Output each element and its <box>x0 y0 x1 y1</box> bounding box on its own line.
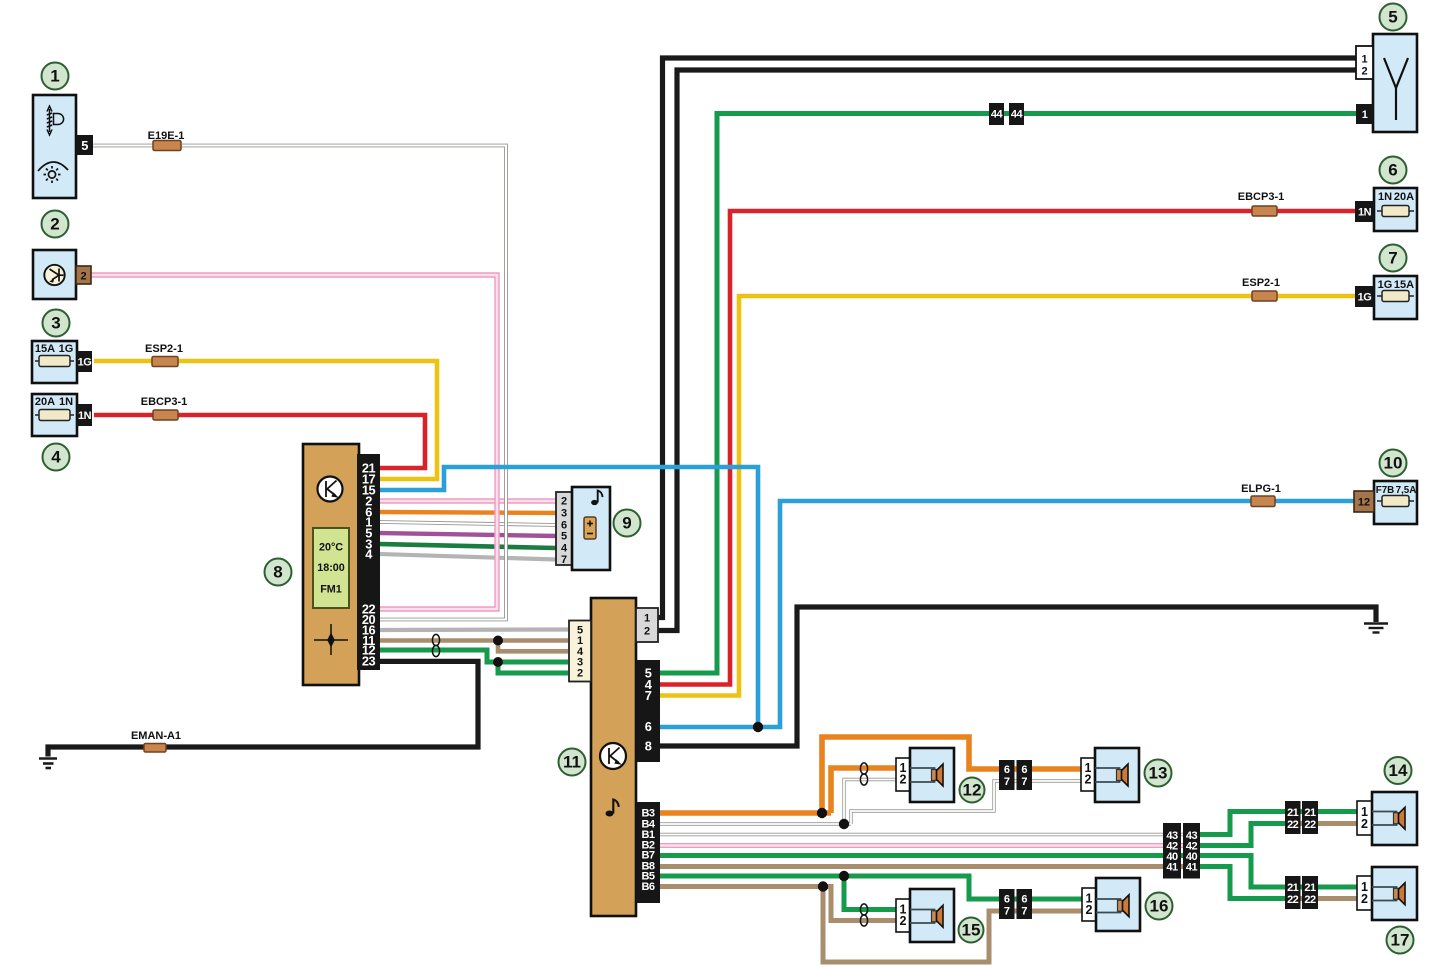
wire: radio pin4 to aux pin7 (gray) <box>379 554 556 560</box>
junction dot tan rear <box>818 881 828 891</box>
component 13: front right door speaker <box>1081 748 1139 802</box>
svg-text:F7B: F7B <box>1376 485 1395 496</box>
wire: radio pin16 to amp pin5 (gray) <box>379 627 568 632</box>
amp connector B pins B3..B6 <box>636 802 660 903</box>
svg-text:2: 2 <box>1361 892 1368 906</box>
svg-text:22: 22 <box>1304 819 1316 831</box>
radio display <box>313 528 349 608</box>
svg-text:41: 41 <box>1166 862 1178 874</box>
label ELPG-1 <box>1241 483 1281 507</box>
wire: radio pin1 to aux pin6 (white) <box>379 522 556 525</box>
svg-text:1: 1 <box>644 613 650 625</box>
svg-text:1N: 1N <box>78 410 92 422</box>
svg-text:B6: B6 <box>641 881 654 893</box>
svg-text:10: 10 <box>1384 454 1403 473</box>
svg-text:5: 5 <box>1388 8 1397 27</box>
svg-text:8: 8 <box>645 738 652 753</box>
wire: orange branch to speaker12 pin1 <box>831 768 896 813</box>
wire: dimmer switch E19E-1 to radio pin20 (white) <box>93 146 506 620</box>
svg-text:22: 22 <box>1287 819 1299 831</box>
circled number 17 <box>1387 927 1414 954</box>
wire: radio pin11 to amp pins1,4 (tan) <box>379 638 568 643</box>
wire: radio pin5 to aux pin5 (violet) <box>379 533 556 536</box>
wire: conn43 to speaker14 pin1 (green) <box>1198 812 1358 835</box>
twisted pair symbol speaker15 <box>860 904 867 926</box>
svg-text:6: 6 <box>1004 764 1010 776</box>
svg-text:2: 2 <box>80 271 86 283</box>
component 9: aux audio module <box>556 487 610 570</box>
svg-text:20A: 20A <box>1394 191 1414 203</box>
svg-text:1: 1 <box>1362 109 1368 121</box>
svg-text:12: 12 <box>1358 497 1370 509</box>
connector 6/7 front doors <box>999 760 1032 790</box>
wire: amp pin5 to antenna amplifier feed (green) <box>660 114 1357 674</box>
label EMAN-A1 <box>131 730 181 752</box>
connector 21/22 lower <box>1285 876 1318 909</box>
circled number 9 <box>614 510 641 537</box>
circled number 2 <box>42 211 69 238</box>
component 4: fuse 20A 1N <box>32 394 92 436</box>
svg-text:11: 11 <box>563 753 581 772</box>
wire: tan branch to door connector 7 and speaker16 <box>823 887 1082 963</box>
wire: cluster to radio pin22 (pink) <box>91 275 497 609</box>
music note icon <box>591 500 598 505</box>
circled number 13 <box>1145 760 1172 787</box>
wire: amp pin8 ground (black) <box>660 607 1376 746</box>
svg-text:EBCP3-1: EBCP3-1 <box>1238 191 1284 203</box>
connector 6/7 rear doors <box>999 889 1032 919</box>
antenna symbol <box>1384 58 1408 120</box>
svg-text:1N: 1N <box>1358 207 1372 219</box>
svg-text:15: 15 <box>962 921 981 940</box>
wire: amp conn pin2 to antenna pin2 (black) <box>658 70 1357 631</box>
svg-text:7: 7 <box>1004 776 1010 788</box>
circled number 7 <box>1380 245 1407 272</box>
svg-text:1G: 1G <box>78 357 92 369</box>
svg-text:20A: 20A <box>35 396 55 408</box>
circled number 1 <box>42 63 69 90</box>
circled number 16 <box>1146 893 1173 920</box>
circled number 10 <box>1380 450 1407 477</box>
svg-text:3: 3 <box>51 314 60 333</box>
svg-text:21: 21 <box>1304 807 1316 819</box>
svg-text:3: 3 <box>561 508 567 520</box>
svg-text:6: 6 <box>645 719 652 734</box>
wire: amp B8 rear-right - (tan) <box>660 864 1198 869</box>
circled number 6 <box>1380 157 1407 184</box>
svg-text:7: 7 <box>561 554 567 566</box>
battery +/- symbol <box>584 517 596 539</box>
svg-text:6: 6 <box>1021 764 1027 776</box>
circled number 3 <box>43 310 70 337</box>
antenna pin 1 <box>1356 104 1373 124</box>
svg-text:2: 2 <box>1361 66 1367 78</box>
circled number 14 <box>1385 757 1412 784</box>
wire: radio pin12 to amp pins3,2 (green) <box>379 650 568 662</box>
ground symbol right <box>1364 624 1388 633</box>
pin 2 <box>76 266 91 284</box>
svg-text:2: 2 <box>1086 903 1093 917</box>
svg-text:2: 2 <box>1361 817 1368 831</box>
svg-text:9: 9 <box>622 514 631 533</box>
component 14: rear shelf left speaker <box>1357 792 1417 845</box>
wire: radio pin23 ground EMAN-A1 (black) <box>48 661 478 756</box>
circled number 5 <box>1380 4 1407 31</box>
component 7: fuse 1G 15A <box>1355 276 1417 319</box>
circled number 4 <box>43 444 70 471</box>
svg-text:7: 7 <box>1388 249 1397 268</box>
svg-text:ELPG-1: ELPG-1 <box>1241 483 1281 495</box>
junction dot orange <box>817 808 827 818</box>
svg-text:ESP2-1: ESP2-1 <box>145 343 183 355</box>
component 6: fuse 1N 20A <box>1355 188 1417 231</box>
label EBCP3-1 left <box>141 396 187 420</box>
component 3: fuse 15A 1G <box>32 341 92 383</box>
connector 43/42/40/41 <box>1163 823 1200 879</box>
component 10: fuse F7B 7,5A <box>1354 481 1417 524</box>
wire: fuse4 EBCP3-1 to radio pin21 (red) <box>94 415 425 468</box>
wire: conn41 to speaker17 pin2 (green then tan) <box>1198 867 1300 899</box>
svg-text:ESP2-1: ESP2-1 <box>1242 277 1280 289</box>
svg-text:5: 5 <box>561 531 567 543</box>
connector 21/22 upper <box>1285 801 1318 834</box>
svg-text:2: 2 <box>900 914 907 928</box>
wire: amp B7 rear-right + (green) <box>660 853 1198 858</box>
connector 44/44 <box>989 103 1024 125</box>
svg-text:FM1: FM1 <box>320 584 342 596</box>
circled number 15 <box>959 918 984 943</box>
wire: radio pin15 to junction (blue) <box>379 467 758 727</box>
wire: fuse3 ESP2-1 to radio pin17 (yellow) <box>94 361 437 479</box>
wire: amp B3 front-left speaker + (orange) <box>660 810 831 816</box>
wire: radio pin6 to aux pin3 (orange) <box>379 512 556 513</box>
wire: amp B5 rear-door-left speaker + (green) <box>660 876 1082 899</box>
wire: green branch to speaker15 pin1 <box>844 876 896 910</box>
junction dot tan amp <box>493 636 503 646</box>
svg-text:21: 21 <box>1287 882 1299 894</box>
svg-text:2: 2 <box>644 626 650 638</box>
svg-text:2: 2 <box>577 668 583 680</box>
wire: amp B2 rear-left - (pink) <box>660 843 1198 848</box>
circled number 8 <box>265 559 292 586</box>
junction dot green amp <box>493 657 503 667</box>
amp connector A pins 5,4,7,6,8 <box>636 660 660 762</box>
svg-text:15A: 15A <box>35 343 55 355</box>
svg-text:14: 14 <box>1389 761 1408 780</box>
twisted pair symbol radio <box>432 634 439 656</box>
label EBCP3-1 right <box>1238 191 1284 216</box>
svg-text:EMAN-A1: EMAN-A1 <box>131 730 181 742</box>
svg-text:44: 44 <box>991 109 1004 121</box>
svg-text:4: 4 <box>51 448 61 467</box>
svg-text:2: 2 <box>50 215 59 234</box>
svg-text:2: 2 <box>900 773 907 787</box>
svg-text:21: 21 <box>1304 882 1316 894</box>
wire: amp B4 front-left speaker - (white) <box>660 780 1081 825</box>
label ESP2-1 right <box>1242 277 1280 301</box>
icon headlamp leveling <box>47 106 64 135</box>
icon panel dimmer <box>38 162 68 183</box>
junction dot green rear <box>839 871 849 881</box>
component 17: rear shelf right speaker <box>1357 867 1417 920</box>
wire: amp B1 rear-left + (white) <box>660 833 1198 836</box>
amp top connector 1/2 <box>636 608 658 642</box>
svg-text:21: 21 <box>1287 807 1299 819</box>
junction dot white front <box>839 819 849 829</box>
svg-text:23: 23 <box>362 654 376 669</box>
ground symbol left <box>39 759 57 769</box>
component 15: rear left door speaker <box>896 889 954 942</box>
wire: conn42 to speaker14 pin2 (green then tan) <box>1198 824 1300 846</box>
svg-text:6: 6 <box>1004 894 1010 906</box>
wire: radio pin2 to aux pin2 (pink) <box>379 498 556 503</box>
radio CAN K symbol <box>318 477 343 502</box>
svg-text:18:00: 18:00 <box>317 562 345 574</box>
svg-text:41: 41 <box>1186 862 1198 874</box>
svg-text:2: 2 <box>1085 773 1092 787</box>
svg-text:22: 22 <box>1304 894 1316 906</box>
svg-text:20°C: 20°C <box>319 542 343 554</box>
icon gauge <box>44 265 64 285</box>
svg-text:1N: 1N <box>1378 191 1392 203</box>
amp left connector 5/1/4/3/2 <box>569 621 591 682</box>
svg-text:5: 5 <box>81 138 88 153</box>
svg-text:7: 7 <box>1021 776 1027 788</box>
svg-text:6: 6 <box>1388 161 1397 180</box>
component 16: rear right door speaker <box>1082 878 1140 931</box>
label E19E-1 <box>148 130 185 151</box>
svg-text:8: 8 <box>273 563 282 582</box>
svg-text:6: 6 <box>1021 894 1027 906</box>
wire: amp pin6 to fuse10 ELPG-1 (blue) <box>660 501 1356 727</box>
wire: conn40 to speaker17 pin1 (green) <box>1198 856 1358 888</box>
svg-text:7,5A: 7,5A <box>1396 485 1417 496</box>
wire: amp pin4 to fuse6 EBCP3-1 (red) <box>660 211 1356 685</box>
svg-text:16: 16 <box>1150 897 1169 916</box>
twisted pair symbol speaker12 <box>860 763 867 785</box>
svg-text:1G: 1G <box>1358 292 1372 304</box>
svg-text:7: 7 <box>645 688 652 703</box>
component 1: lighting dimmer / headlamp leveling switch <box>33 95 93 198</box>
svg-text:7: 7 <box>1021 906 1027 918</box>
label ESP2-1 left <box>145 343 183 367</box>
svg-text:12: 12 <box>963 781 982 800</box>
svg-text:EBCP3-1: EBCP3-1 <box>141 396 187 408</box>
svg-text:13: 13 <box>1149 764 1168 783</box>
component 2: instrument cluster <box>33 250 91 299</box>
junction dot blue <box>753 722 763 732</box>
wire: amp pin7 to fuse7 ESP2-1 (yellow) <box>660 296 1356 696</box>
svg-text:7: 7 <box>1004 906 1010 918</box>
svg-text:44: 44 <box>1011 109 1024 121</box>
svg-text:1N: 1N <box>59 396 73 408</box>
svg-text:22: 22 <box>1287 894 1299 906</box>
component 5: roof antenna <box>1356 34 1417 132</box>
amp music note icon <box>606 811 614 817</box>
pin 5 <box>76 135 93 155</box>
antenna connector 1/2 <box>1356 46 1373 79</box>
svg-text:1: 1 <box>1361 54 1367 66</box>
svg-text:4: 4 <box>561 543 568 555</box>
svg-text:15A: 15A <box>1394 279 1414 291</box>
svg-text:1G: 1G <box>59 343 74 355</box>
wire: radio pin3 to aux pin4 (dark green) <box>379 544 556 548</box>
component 12: front left door speaker <box>896 748 954 802</box>
svg-text:1G: 1G <box>1378 279 1393 291</box>
svg-text:17: 17 <box>1391 931 1410 950</box>
wire: amp B6 rear-door-left speaker - (tan) <box>660 887 896 921</box>
wire: amp conn pin1 to antenna pin1 (black) <box>658 58 1357 618</box>
component 11: audio amplifier <box>569 598 660 916</box>
svg-text:1: 1 <box>50 67 59 86</box>
circled number 12 <box>960 778 985 803</box>
wire: orange branch to door connector 6 and speaker13 <box>822 737 1081 813</box>
svg-text:2: 2 <box>561 496 567 508</box>
radio star icon <box>314 624 348 655</box>
component 8: radio head unit <box>303 444 380 685</box>
amp CAN K symbol <box>600 743 626 769</box>
circled number 11 <box>559 749 586 776</box>
